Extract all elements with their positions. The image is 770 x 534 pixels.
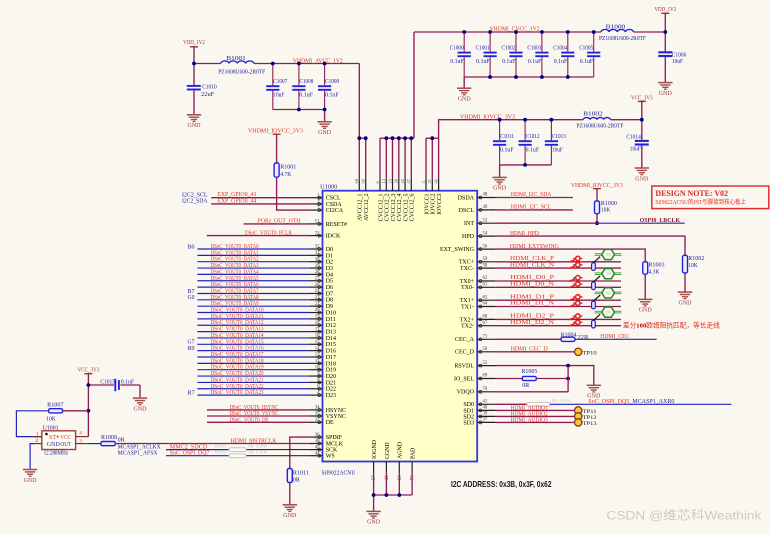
svg-text:IOVCC3: IOVCC3 <box>437 193 443 214</box>
wire DSoC_VOUT0_DATA23 to D23 <box>197 394 309 396</box>
svg-text:100: 100 <box>605 272 611 276</box>
net label G7 <box>188 340 195 346</box>
svg-text:VSYNC: VSYNC <box>326 414 346 420</box>
svg-text:VDD_1V2: VDD_1V2 <box>654 6 676 13</box>
net label DSoC_VOUT0_DATA13 <box>211 327 264 333</box>
svg-text:17: 17 <box>315 327 320 332</box>
wire DSoC_VOUT0_DATA11 to D11 <box>197 318 309 320</box>
svg-text:0R 1/16W: 0R 1/16W <box>249 450 269 455</box>
svg-text:MCASP1_AFSX: MCASP1_AFSX <box>118 451 159 457</box>
net label R0 <box>188 346 195 352</box>
diff pair directive markers HDMI_D0_P/HDMI_D0_N <box>569 276 583 288</box>
svg-text:R1011: R1011 <box>293 471 309 477</box>
wire R1003 to ground <box>644 274 646 299</box>
wire HDMI_MSTRCLK to MCLK <box>115 443 309 445</box>
svg-text:C1007: C1007 <box>273 79 287 85</box>
capacitor C1006 10uF <box>658 32 686 82</box>
svg-text:13: 13 <box>381 178 386 183</box>
wire DSoC_VOUT0_PCLK to IDCK <box>207 235 310 237</box>
svg-text:22: 22 <box>315 231 320 236</box>
diff pair class symbol HDMI_D2 <box>592 307 622 328</box>
wire DSoC_VOUT0_DATA6 to D6 <box>197 286 309 288</box>
svg-text:HDMI_D2_N: HDMI_D2_N <box>510 320 555 326</box>
wire DSoC_VOUT0_DATA14 to D14 <box>197 337 309 339</box>
wire RSVDL to ground <box>496 364 594 385</box>
resistor R1003 4.3K <box>643 262 665 276</box>
svg-text:14: 14 <box>315 346 320 351</box>
net label DSoC_VOUT0_DATA18 <box>211 358 264 364</box>
svg-text:GND: GND <box>493 185 506 192</box>
svg-text:PZ1608U600-2R0TF: PZ1608U600-2R0TF <box>218 69 266 75</box>
svg-text:G0: G0 <box>188 295 195 301</box>
svg-text:GND: GND <box>134 405 147 412</box>
svg-text:0.1uF: 0.1uF <box>502 59 516 65</box>
net label DSoC_VOUT0_DATA7 <box>211 288 259 294</box>
net label EXP_GPIO0_43 <box>217 192 256 198</box>
svg-text:D3: D3 <box>326 266 333 272</box>
wire HDMI_D2_P <box>496 318 621 320</box>
wire VHDMI_AVCC_1V2 rail <box>194 64 359 139</box>
svg-text:28: 28 <box>315 270 320 275</box>
capacitor C1011 0.1uF <box>493 120 514 165</box>
svg-text:61: 61 <box>483 283 488 288</box>
wire SoC_OSPI_DQ5 <box>550 403 731 405</box>
wire B1000 to VDD_1V2 <box>634 31 666 33</box>
svg-text:10K: 10K <box>601 208 611 214</box>
svg-text:R1009: R1009 <box>215 444 226 449</box>
svg-text:D22: D22 <box>326 387 336 393</box>
resistor R1000 10K <box>595 189 617 214</box>
svg-text:SCK: SCK <box>326 448 338 454</box>
svg-text:66: 66 <box>361 178 366 183</box>
wire DSoC_VOUT0_DATA9 to D9 <box>197 305 309 307</box>
capacitor C1008 0.1uF <box>292 64 313 110</box>
net label VHDMI_IOVCC_3V3 (R1000) <box>571 183 623 189</box>
net label DSoC_VOUT0_DATA10 <box>211 308 264 314</box>
capacitor C1001 0.1uF <box>476 32 497 77</box>
svg-text:TX1+: TX1+ <box>460 298 475 304</box>
svg-text:C1006: C1006 <box>672 52 687 58</box>
svg-text:59: 59 <box>483 257 488 262</box>
wire DSoC_VOUT0_HSYNC <box>207 409 310 411</box>
svg-text:C1003: C1003 <box>527 45 541 51</box>
net label I2C2_SDA <box>182 199 208 205</box>
ground below C1014 <box>635 168 649 182</box>
svg-text:HPD: HPD <box>462 234 475 240</box>
svg-text:U1000: U1000 <box>320 183 337 190</box>
svg-text:47: 47 <box>406 178 411 183</box>
inductor B1002 <box>576 111 624 129</box>
unfitted resistor R1010 (ghost) on WS <box>215 450 268 458</box>
capacitor C1014 10uF <box>626 120 649 168</box>
svg-text:D20: D20 <box>326 374 336 380</box>
svg-text:24: 24 <box>315 289 320 294</box>
svg-text:GND: GND <box>47 442 60 448</box>
wire HDMI_CLK_P <box>496 261 621 263</box>
svg-text:B1002: B1002 <box>583 111 603 117</box>
svg-text:HSYNC: HSYNC <box>326 408 346 414</box>
wire SD0 to unfitted resistor <box>496 403 527 405</box>
net label VHDMI_AVCC_1V2 <box>293 58 343 64</box>
note I2C address <box>451 479 552 489</box>
ground below C1011 <box>492 177 506 191</box>
svg-text:C1001: C1001 <box>476 45 490 51</box>
wire HDMI_AUDIO1 <box>496 409 575 411</box>
svg-text:100: 100 <box>605 291 611 295</box>
diff pair directive markers HDMI_D2_P/HDMI_D2_N <box>569 314 583 326</box>
net label G0 <box>188 295 195 301</box>
svg-text:TP10: TP10 <box>583 350 597 356</box>
junction dots IOVCC rail <box>498 118 554 167</box>
ground below R1003 <box>638 299 652 313</box>
net label HDMI_AUDIO2 <box>511 411 548 417</box>
svg-text:31: 31 <box>315 251 320 256</box>
svg-text:40: 40 <box>483 406 488 411</box>
net label HDMI_D0_N <box>510 282 555 288</box>
svg-text:CSDA: CSDA <box>326 202 343 208</box>
svg-text:70: 70 <box>483 387 488 392</box>
svg-text:RSVDL: RSVDL <box>454 364 474 370</box>
ground below IC <box>366 511 380 525</box>
svg-text:C1009: C1009 <box>325 79 339 85</box>
wire AVCC caps ground rail <box>273 110 325 122</box>
svg-text:DSCL: DSCL <box>459 208 475 214</box>
svg-text:D13: D13 <box>326 329 336 335</box>
svg-text:0.1uF: 0.1uF <box>554 59 568 65</box>
wire CEC_A to R1004 <box>496 338 561 340</box>
svg-text:CGND: CGND <box>385 442 391 459</box>
svg-text:35: 35 <box>315 412 320 417</box>
svg-text:21: 21 <box>427 179 432 184</box>
svg-text:I2C ADDRESS: 0x3B, 0x3F, 0x62: I2C ADDRESS: 0x3B, 0x3F, 0x62 <box>451 479 552 489</box>
svg-text:RESET#: RESET# <box>326 222 347 228</box>
note differential impedance (chinese) <box>623 320 720 329</box>
capacitor C1015 0.1uF <box>88 379 140 398</box>
svg-text:38: 38 <box>315 439 320 444</box>
wire I2C2_SDA <box>211 203 309 205</box>
svg-text:D9: D9 <box>326 304 333 310</box>
svg-text:R1000: R1000 <box>601 201 617 207</box>
net label DSoC_VOUT0_HSYNC <box>230 405 279 411</box>
svg-text:HDMI_D0_P: HDMI_D0_P <box>510 275 555 281</box>
svg-text:I2C2_SCL: I2C2_SCL <box>182 192 208 198</box>
net label VHDMI_IOVCC_3V3 (rail) <box>460 114 515 120</box>
svg-text:VCC_3V3: VCC_3V3 <box>631 94 653 101</box>
svg-text:AVCC12_1: AVCC12_1 <box>358 193 364 220</box>
ground below C1009 <box>317 122 331 136</box>
svg-text:65: 65 <box>483 295 488 300</box>
svg-text:36: 36 <box>315 433 320 438</box>
svg-text:CEC_D: CEC_D <box>455 350 475 356</box>
wire SPDIF to R1011 <box>290 437 310 468</box>
svg-text:19: 19 <box>315 315 320 320</box>
svg-text:0R 1/16W: 0R 1/16W <box>552 398 572 403</box>
wire DSoC_VOUT0_DATA12 to D12 <box>197 324 309 326</box>
capacitor C1003 0.1uF <box>527 32 548 77</box>
svg-text:CSCL: CSCL <box>326 196 341 202</box>
net label HDMI_CLK_P <box>510 256 555 262</box>
svg-text:HDMI_D2_P: HDMI_D2_P <box>510 314 555 320</box>
wire DSoC_VOUT0_DATA19 to D19 <box>197 369 309 371</box>
svg-text:GND: GND <box>679 299 692 306</box>
net label DSoC_VOUT0_DATA19 <box>211 365 264 371</box>
power flag VDD_1V2 (left) <box>183 39 205 63</box>
net label DSoC_VOUT0_DATA5 <box>211 276 259 282</box>
net label MCASP1_AFSX <box>118 451 159 457</box>
net label DSoC_VOUT0_DATA22 <box>211 384 264 390</box>
svg-text:C1005: C1005 <box>579 45 593 51</box>
wire DSoC_VOUT0_DATA7 to D7 <box>197 292 309 294</box>
wire DSoC_VOUT0_DATA17 to D17 <box>197 356 309 358</box>
svg-text:GND: GND <box>24 477 37 484</box>
svg-text:28: 28 <box>394 178 399 183</box>
svg-text:34: 34 <box>315 406 320 411</box>
wire HDMI_D1_N <box>496 306 621 308</box>
svg-text:TX2-: TX2- <box>461 324 474 330</box>
wire HDMI_CLK_N <box>496 267 621 269</box>
svg-text:13: 13 <box>315 353 320 358</box>
ground below oscillator <box>23 470 37 484</box>
svg-text:PZ1608U600-2R0TF: PZ1608U600-2R0TF <box>576 124 624 130</box>
svg-text:56: 56 <box>483 244 488 249</box>
svg-text:C1008: C1008 <box>299 79 313 85</box>
wire MMC2_SDCD to SCK <box>166 449 310 451</box>
svg-text:10uF: 10uF <box>672 59 684 65</box>
svg-text:INT: INT <box>464 221 474 227</box>
svg-text:MCLK: MCLK <box>326 441 344 447</box>
wire PORz_OUT_OTH to RESET# <box>244 223 310 225</box>
junction dot VDD_1V2 <box>663 30 667 34</box>
svg-text:27: 27 <box>315 276 320 281</box>
svg-text:HDMI_D1_N: HDMI_D1_N <box>510 301 555 307</box>
net label HDMI_AUDIO1 <box>511 405 548 411</box>
IC U1000 top power pins <box>354 178 443 221</box>
svg-text:TX1-: TX1- <box>461 304 474 310</box>
svg-text:D0: D0 <box>326 247 333 253</box>
svg-text:C1010: C1010 <box>202 85 217 91</box>
svg-text:VHDMI_IOVCC_3V3: VHDMI_IOVCC_3V3 <box>460 114 515 120</box>
wire R1000 to INT <box>595 214 599 225</box>
net label HDMI_HPD <box>510 231 540 237</box>
capacitor C1012 0.1uF <box>519 120 540 165</box>
svg-text:D5: D5 <box>326 279 333 285</box>
svg-text:11: 11 <box>315 359 320 364</box>
net label MMC2_SDCD <box>170 445 208 451</box>
svg-text:37: 37 <box>483 418 488 423</box>
wire DSoC_VOUT0_DE <box>207 421 310 423</box>
svg-text:D11: D11 <box>326 317 336 323</box>
svg-text:B7: B7 <box>188 289 195 295</box>
ground below R1002 <box>678 292 692 306</box>
net label HDMI_EXTSWING <box>510 244 560 250</box>
svg-text:TXC+: TXC+ <box>459 260 475 266</box>
power flag VCC_3V3 (right) <box>631 94 653 119</box>
svg-text:42: 42 <box>400 179 405 184</box>
resistor R1011 0R <box>287 469 309 484</box>
svg-text:C1015: C1015 <box>100 379 115 385</box>
svg-text:D10: D10 <box>326 310 336 316</box>
wire DSoC_VOUT0_DATA2 to D2 <box>197 261 309 263</box>
svg-text:10K: 10K <box>688 263 698 269</box>
unfitted resistor R1009 (ghost) on SCK <box>215 444 268 452</box>
inductor B1000 <box>599 25 647 43</box>
svg-text:49: 49 <box>483 205 488 210</box>
svg-text:TX0+: TX0+ <box>460 279 475 285</box>
wire HDMI_D2_N <box>496 325 621 327</box>
svg-text:CEC_A: CEC_A <box>455 337 475 343</box>
svg-text:0.1uF: 0.1uF <box>476 59 490 65</box>
diff pair class symbol HDMI_D1 <box>592 288 622 309</box>
capacitor C1004 0.1uF <box>553 32 574 77</box>
net label HDMI_I2C_SCL <box>511 205 552 211</box>
svg-text:R7: R7 <box>188 391 195 397</box>
svg-text:20: 20 <box>315 308 320 313</box>
wire R1001 to CI2CA <box>277 177 310 210</box>
net label OSPI0_LBCLK <box>640 217 681 224</box>
svg-text:64: 64 <box>483 302 488 307</box>
wire CEC_D to TP10 <box>496 351 575 353</box>
net label DSoC_VOUT0_DATA3 <box>211 263 259 269</box>
wire CVCC pins to rail <box>380 136 414 178</box>
capacitor C1000 0.1uF <box>450 32 471 77</box>
inductor B1001 <box>218 56 266 75</box>
svg-text:HDMI_D0_N: HDMI_D0_N <box>510 282 555 288</box>
svg-text:26: 26 <box>315 283 320 288</box>
svg-text:TXC-: TXC- <box>460 266 474 272</box>
IC U1000 left pins <box>310 193 348 459</box>
svg-text:0.1uF: 0.1uF <box>325 92 339 98</box>
net label DSoC_VOUT0_DATA21 <box>211 377 264 383</box>
svg-text:GND: GND <box>639 307 652 314</box>
wire R1007 to oscillator ST pin <box>16 411 48 437</box>
svg-text:IOGND: IOGND <box>372 439 378 459</box>
svg-text:12.288MHz: 12.288MHz <box>44 451 69 457</box>
svg-text:51: 51 <box>315 220 320 225</box>
net label DSoC_VOUT0_DATA20 <box>211 371 264 377</box>
capacitor C1007 10uF <box>266 64 287 110</box>
test point TP13 <box>575 419 597 427</box>
net label EXP_GPIO0_44 <box>217 198 256 204</box>
wire HDMI_I2C_SDA <box>496 197 573 199</box>
svg-text:SPDIF: SPDIF <box>326 435 343 441</box>
svg-text:R0: R0 <box>188 346 195 352</box>
wire DSoC_VOUT0_DATA15 to D15 <box>197 343 309 345</box>
net label SoC_OSPI_DQ5_MCASP1_AXR0 <box>588 399 674 405</box>
resistor R1001 4.7K <box>274 134 296 178</box>
svg-text:D18: D18 <box>326 361 336 367</box>
wire DSoC_VOUT0_DATA13 to D13 <box>197 331 309 333</box>
svg-text:B0: B0 <box>188 244 195 250</box>
svg-text:AGND: AGND <box>398 441 404 459</box>
svg-text:39: 39 <box>483 412 488 417</box>
svg-text:GND: GND <box>367 519 380 526</box>
svg-text:I2C2_SDA: I2C2_SDA <box>182 199 208 205</box>
svg-text:C1011: C1011 <box>500 134 514 140</box>
svg-text:IO_SEL: IO_SEL <box>454 376 474 382</box>
svg-text:21: 21 <box>315 302 320 307</box>
svg-text:0R: 0R <box>522 383 529 389</box>
wire oscillator GND pin to ground <box>30 444 34 470</box>
svg-text:D23: D23 <box>326 393 336 399</box>
wire DSoC_VOUT0_DATA16 to D16 <box>197 350 309 352</box>
svg-text:0.1uF: 0.1uF <box>580 59 594 65</box>
svg-text:16: 16 <box>315 334 320 339</box>
svg-text:10uF: 10uF <box>552 147 564 153</box>
wire R1005 to RSVDL net <box>536 366 570 392</box>
power flag VCC_3V3 (left) <box>78 367 100 385</box>
svg-text:VCC: VCC <box>60 435 71 441</box>
svg-text:10uF: 10uF <box>630 147 642 153</box>
wire HDMI_CEC <box>575 338 657 340</box>
IC U1000 bottom ground pins <box>372 439 417 480</box>
net label R7 <box>188 391 195 397</box>
ground below R1011 <box>283 505 297 519</box>
net label VHDMI_IOVCC_3V3 (R1001) <box>248 129 303 135</box>
wire DSoC_VOUT0_DATA3 to D3 <box>197 267 309 269</box>
svg-text:CVCC12_4: CVCC12_4 <box>397 193 403 221</box>
svg-text:DESIGN NOTE: V02: DESIGN NOTE: V02 <box>655 189 728 198</box>
svg-text:SD0: SD0 <box>463 402 474 408</box>
wire R1011 to ground <box>289 483 291 505</box>
svg-text:SiI9022ACNU的INT引脚接到核心板上: SiI9022ACNU的INT引脚接到核心板上 <box>655 198 746 206</box>
net label DSoC_VOUT0_VSYNC <box>230 411 279 417</box>
wire IO_SEL to R1005 <box>496 378 523 380</box>
wire DSoC_VOUT0_DATA4 to D4 <box>197 273 309 275</box>
svg-text:10K: 10K <box>46 416 56 422</box>
svg-text:TP13: TP13 <box>583 421 597 427</box>
wire IOVCC pins to rail <box>426 136 439 178</box>
wire HDMI_AUDIO3 <box>496 421 575 423</box>
oscillator U1001 12.288MHz <box>34 425 88 456</box>
test point TP11 <box>575 407 597 415</box>
net label DSoC_VOUT0_DATA16 <box>211 346 264 352</box>
svg-text:4.3K: 4.3K <box>649 269 661 275</box>
svg-text:100: 100 <box>605 253 611 257</box>
svg-text:48: 48 <box>483 193 488 198</box>
svg-text:4.7K: 4.7K <box>280 172 292 178</box>
net label VHDMI_CVCC_1V2 <box>490 27 540 33</box>
svg-text:CVCC12_1: CVCC12_1 <box>378 193 384 221</box>
svg-text:0.1uF: 0.1uF <box>500 147 514 153</box>
svg-text:GND: GND <box>458 96 471 103</box>
svg-text:0.1uF: 0.1uF <box>121 379 135 385</box>
net label DSoC_VOUT0_DATA4 <box>211 269 259 275</box>
design note box <box>652 186 769 209</box>
svg-text:D4: D4 <box>326 272 333 278</box>
net label HDMI_I2C_SDA <box>511 192 552 198</box>
net label B7 <box>188 289 195 295</box>
wire OUT to R1008 <box>88 443 101 445</box>
svg-text:HDMI_CLK_P: HDMI_CLK_P <box>510 256 555 262</box>
svg-text:MCASP1_ACLKX: MCASP1_ACLKX <box>118 445 162 451</box>
svg-text:AVCC12_2: AVCC12_2 <box>364 193 370 220</box>
svg-text:OUT: OUT <box>60 442 71 448</box>
svg-text:52: 52 <box>483 218 488 223</box>
resistor R1007 10K <box>46 403 88 423</box>
capacitor C1009 0.1uF <box>318 64 339 110</box>
net label DSoC_VOUT0_DATA9 <box>211 301 259 307</box>
svg-text:0.1uF: 0.1uF <box>299 92 313 98</box>
net label HDMI_D1_P <box>510 294 555 300</box>
svg-text:46: 46 <box>433 178 438 183</box>
wire DSoC_VOUT0_DATA1 to D1 <box>197 254 309 256</box>
diff pair class symbol HDMI_CLK <box>592 249 622 270</box>
svg-text:C1012: C1012 <box>526 134 540 140</box>
svg-text:D21: D21 <box>326 380 336 386</box>
junction dot VCC_3V3 <box>640 118 644 122</box>
net label DSoC_VOUT0_DATA17 <box>211 352 264 358</box>
svg-text:SiI9022ACNU: SiI9022ACNU <box>322 469 356 476</box>
